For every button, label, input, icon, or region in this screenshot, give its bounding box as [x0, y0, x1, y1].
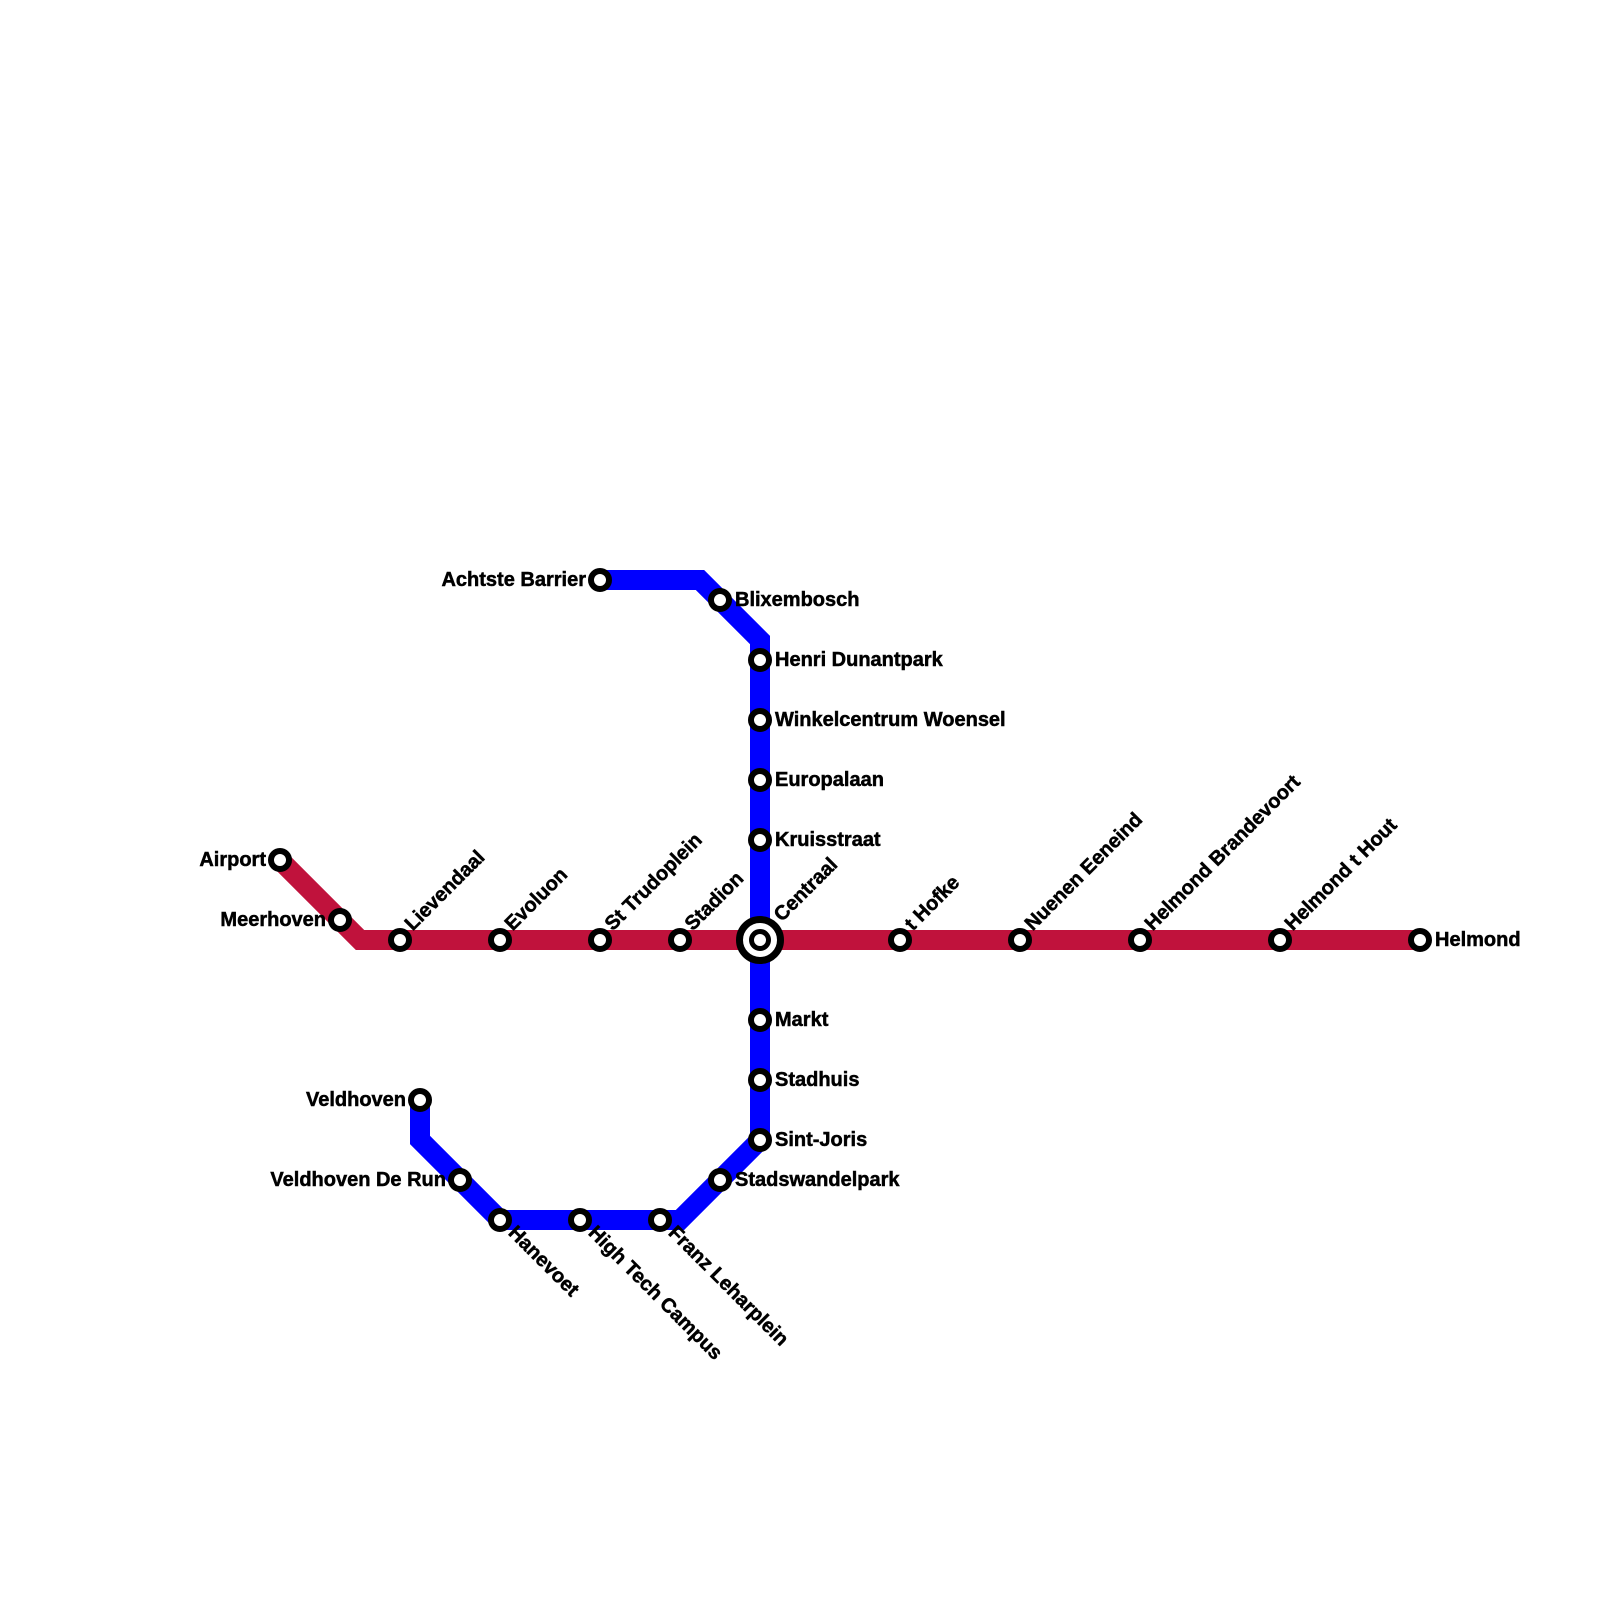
svg-text:Stadswandelpark: Stadswandelpark [735, 1169, 900, 1191]
svg-text:Stadhuis: Stadhuis [775, 1069, 859, 1091]
label Franz Leharplein [664, 1222, 793, 1351]
station Hanevoet [491, 1211, 509, 1229]
svg-text:Veldhoven De Run: Veldhoven De Run [270, 1169, 446, 1191]
station Winkelcentrum Woensel [751, 711, 769, 729]
svg-text:Kruisstraat: Kruisstraat [775, 829, 881, 851]
svg-text:Markt: Markt [775, 1009, 829, 1031]
station Franz Leharplein [651, 1211, 669, 1229]
station Blixembosch [711, 591, 729, 609]
label St Trudoplein [601, 829, 707, 935]
svg-text:Veldhoven: Veldhoven [306, 1089, 406, 1111]
station Lievendaal [391, 931, 409, 949]
station Meerhoven [331, 911, 349, 929]
station Kruisstraat [751, 831, 769, 849]
label t Hofke [901, 872, 964, 935]
station Evoluon [491, 931, 509, 949]
station Helmond Brandevoort [1131, 931, 1149, 949]
station High Tech Campus [571, 1211, 589, 1229]
label Nuenen Eeneind [1021, 809, 1147, 935]
interchange Centraal [740, 920, 781, 961]
station Henri Dunantpark [751, 651, 769, 669]
station Stadhuis [751, 1071, 769, 1089]
label Centraal [770, 854, 842, 926]
label Helmond Brandevoort [1141, 771, 1305, 935]
blue line Achtste Barrier-Veldhoven [420, 580, 760, 1220]
svg-text:Blixembosch: Blixembosch [735, 589, 859, 611]
label Lievendaal [401, 846, 490, 935]
station Europalaan [751, 771, 769, 789]
label Evoluon [501, 864, 572, 935]
svg-text:Achtste Barrier: Achtste Barrier [441, 569, 586, 591]
station Stadswandelpark [711, 1171, 729, 1189]
station Veldhoven De Run [451, 1171, 469, 1189]
station Veldhoven [411, 1091, 429, 1109]
station Sint-Joris [751, 1131, 769, 1149]
label Hanevoet [504, 1222, 583, 1301]
red line Airport-Helmond [280, 860, 1420, 940]
station t Hofke [891, 931, 909, 949]
svg-text:Airport: Airport [199, 849, 266, 871]
svg-text:Helmond: Helmond [1435, 929, 1521, 951]
svg-text:Europalaan: Europalaan [775, 769, 884, 791]
label Stadion [681, 868, 748, 935]
svg-text:Meerhoven: Meerhoven [220, 909, 326, 931]
station Airport [271, 851, 289, 869]
svg-text:Henri Dunantpark: Henri Dunantpark [775, 649, 944, 671]
station St Trudoplein [591, 931, 609, 949]
station Markt [751, 1011, 769, 1029]
station Stadion [671, 931, 689, 949]
svg-text:Sint-Joris: Sint-Joris [775, 1129, 867, 1151]
station Helmond [1411, 931, 1429, 949]
station Nuenen Eeneind [1011, 931, 1029, 949]
label High Tech Campus [584, 1222, 727, 1365]
svg-text:Winkelcentrum Woensel: Winkelcentrum Woensel [775, 709, 1006, 731]
label Helmond t Hout [1281, 814, 1402, 935]
station Helmond t Hout [1271, 931, 1289, 949]
station Achtste Barrier [591, 571, 609, 589]
